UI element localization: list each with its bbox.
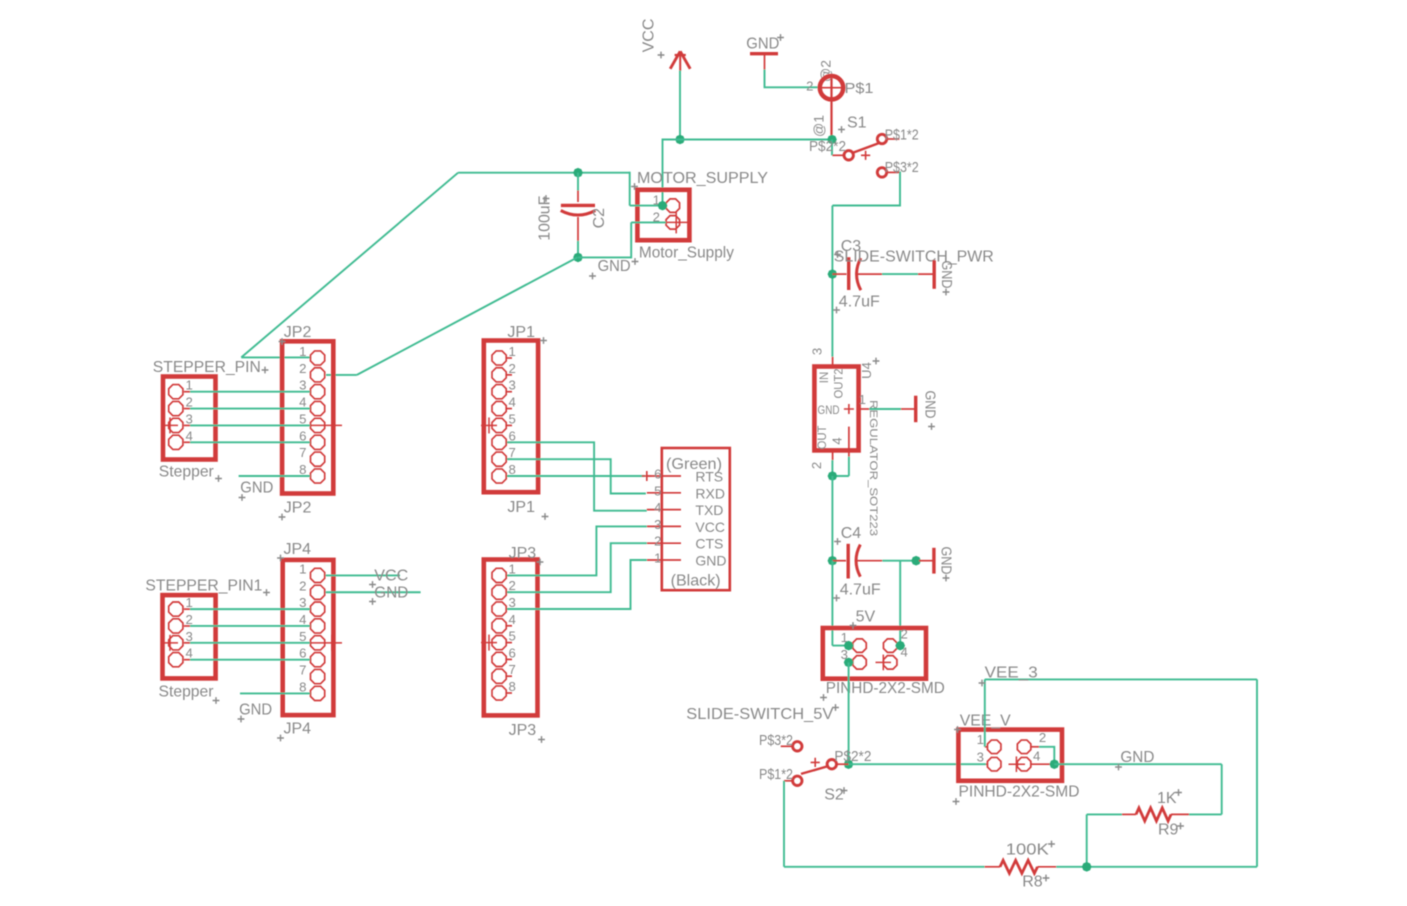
pad 3 (JP1) xyxy=(492,385,506,399)
pad 8 (JP4) xyxy=(310,686,324,700)
label PINHD-2X2-SMD origin xyxy=(820,694,827,701)
wire xyxy=(831,460,833,476)
junction xyxy=(844,759,854,769)
ground xyxy=(750,54,778,70)
svg-text:(Black): (Black) xyxy=(671,573,721,590)
junction xyxy=(828,556,838,566)
label 4.7uF origin xyxy=(833,307,840,314)
wire xyxy=(190,625,310,627)
wire xyxy=(241,173,458,358)
svg-text:2: 2 xyxy=(186,395,193,410)
svg-text:Stepper: Stepper xyxy=(159,464,215,481)
label PINHD-2X2-SMD origin xyxy=(953,798,960,805)
pad 2 (JP4) xyxy=(310,585,324,599)
svg-text:PINHD-2X2-SMD: PINHD-2X2-SMD xyxy=(826,680,945,697)
svg-text:4: 4 xyxy=(299,612,306,627)
svg-text:P$2*2: P$2*2 xyxy=(809,139,846,155)
connector STEPPER_PIN xyxy=(163,377,216,460)
junction xyxy=(658,201,668,211)
wire xyxy=(1189,813,1222,815)
pad 4 (JP4) xyxy=(310,619,324,633)
pad 5 (JP4) xyxy=(310,636,324,650)
svg-text:GND: GND xyxy=(1120,749,1154,766)
svg-text:1K: 1K xyxy=(1157,790,1177,807)
origin cross STEPPER_PIN xyxy=(161,417,178,433)
pad 4 (5V) xyxy=(876,655,897,671)
svg-text:6: 6 xyxy=(509,428,516,443)
svg-text:VCC: VCC xyxy=(695,519,725,535)
pad 3 (STEPPER_PIN1) xyxy=(169,636,183,650)
svg-text:2: 2 xyxy=(1039,730,1046,745)
wire xyxy=(832,645,850,647)
svg-text:4: 4 xyxy=(509,395,516,410)
wire xyxy=(848,457,850,476)
svg-text:S1: S1 xyxy=(847,115,867,132)
regulator U4 pin 2 xyxy=(832,450,834,460)
pin 6 (RTS) xyxy=(647,475,681,477)
svg-text:2: 2 xyxy=(809,462,824,469)
pad 4 (JP1) xyxy=(492,401,506,415)
label C4 origin xyxy=(834,538,841,545)
svg-text:VCC: VCC xyxy=(641,19,658,53)
label R8 origin xyxy=(1043,875,1050,882)
wire xyxy=(984,679,986,746)
svg-text:PINHD-2X2-SMD: PINHD-2X2-SMD xyxy=(959,784,1080,801)
label GND origin xyxy=(943,289,950,296)
pad 3 (JP3) xyxy=(492,602,506,616)
label GND origin xyxy=(369,598,376,605)
pad 7 (JP2) xyxy=(310,452,324,466)
connector JP3 xyxy=(484,560,538,716)
pad 3 (STEPPER_PIN) xyxy=(169,418,183,432)
label JP1 origin xyxy=(542,513,549,520)
svg-text:3: 3 xyxy=(977,749,984,764)
label U4 origin xyxy=(873,358,880,365)
pad 1 (JP4) xyxy=(310,568,324,582)
wire xyxy=(849,763,987,765)
wire xyxy=(577,241,579,258)
svg-text:8: 8 xyxy=(509,679,516,694)
junction xyxy=(675,135,685,145)
svg-text:TXD: TXD xyxy=(695,502,723,518)
junction xyxy=(828,269,838,279)
connector JP2 xyxy=(282,341,333,493)
junction xyxy=(844,641,854,651)
svg-text:3: 3 xyxy=(810,348,825,355)
pad 7 (JP3) xyxy=(492,669,506,683)
connector FTDI cable xyxy=(662,448,730,590)
pad 1 (STEPPER_PIN) xyxy=(169,385,183,399)
svg-text:R8: R8 xyxy=(1022,874,1043,891)
connector VEE_V header xyxy=(958,730,1062,781)
svg-text:1: 1 xyxy=(977,732,984,747)
label 5V origin xyxy=(850,622,857,629)
label Stepper origin xyxy=(215,475,222,482)
wire xyxy=(241,356,311,358)
wire xyxy=(882,273,918,275)
wire xyxy=(458,172,630,174)
wire xyxy=(869,408,901,410)
wire xyxy=(663,139,833,141)
svg-text:JP3: JP3 xyxy=(509,545,537,562)
label GND origin xyxy=(589,273,596,280)
label GND origin xyxy=(777,34,784,41)
svg-text:1: 1 xyxy=(299,344,306,359)
label Motor_Supply origin xyxy=(632,258,639,265)
svg-text:GND: GND xyxy=(922,391,938,419)
wire xyxy=(190,408,310,410)
label JP3 origin xyxy=(538,736,545,743)
wire xyxy=(831,274,833,357)
wire xyxy=(1256,679,1258,866)
wire xyxy=(507,475,645,477)
wire xyxy=(577,173,579,191)
wire xyxy=(985,678,1257,680)
svg-text:GND: GND xyxy=(598,258,631,275)
svg-text:5: 5 xyxy=(299,411,306,426)
wire xyxy=(190,642,310,644)
label VCC origin xyxy=(658,52,665,59)
label STEPPER_PIN1 origin xyxy=(263,589,270,596)
svg-text:5V: 5V xyxy=(856,609,876,626)
svg-text:7: 7 xyxy=(509,662,516,677)
regulator U4 pin 3 xyxy=(832,357,834,367)
junction xyxy=(1082,862,1092,872)
svg-text:3: 3 xyxy=(654,517,661,532)
label MOTOR_SUPPLY origin xyxy=(631,183,638,190)
pad 7 (JP1) xyxy=(492,452,506,466)
svg-text:2: 2 xyxy=(299,361,306,376)
wire xyxy=(507,526,647,575)
pad 3 (5V) xyxy=(853,656,866,669)
pad 2 (JP2) xyxy=(310,368,324,382)
wire xyxy=(190,391,310,393)
svg-text:VEE_3: VEE_3 xyxy=(985,665,1038,682)
label STEPPER_PIN origin xyxy=(262,367,269,374)
svg-text:OUT2: OUT2 xyxy=(834,369,846,399)
wire xyxy=(765,70,818,88)
label C3 origin xyxy=(834,251,841,258)
pad 2 (MOTOR_SUPPLY) xyxy=(665,211,688,233)
wire xyxy=(831,561,833,646)
pad 2 (VEE_V) xyxy=(1017,740,1030,753)
label JP4 origin xyxy=(277,735,284,742)
connector MOTOR_SUPPLY xyxy=(637,190,689,240)
svg-text:4: 4 xyxy=(186,646,193,661)
pad 1 (MOTOR_SUPPLY) xyxy=(666,199,679,212)
wire xyxy=(783,781,785,867)
origin cross U4 xyxy=(844,404,854,414)
junction xyxy=(895,641,905,651)
svg-text:6: 6 xyxy=(299,428,306,443)
svg-text:P$3*2: P$3*2 xyxy=(885,160,919,176)
svg-text:100K: 100K xyxy=(1006,842,1049,859)
svg-text:2: 2 xyxy=(654,534,661,549)
svg-text:7: 7 xyxy=(299,663,306,678)
pad 2 (STEPPER_PIN) xyxy=(169,401,183,415)
svg-text:GND: GND xyxy=(938,261,954,289)
pin 5 (RXD) xyxy=(647,492,681,494)
pad 5 (JP2) xyxy=(310,418,324,432)
svg-text:JP2: JP2 xyxy=(284,324,312,341)
wire xyxy=(507,459,646,493)
label GND origin xyxy=(943,575,950,582)
wire xyxy=(507,442,647,510)
svg-text:3: 3 xyxy=(509,595,516,610)
pad 1 (JP3) xyxy=(492,568,506,582)
svg-text:RXD: RXD xyxy=(695,485,725,501)
wire xyxy=(190,659,310,661)
svg-text:JP1: JP1 xyxy=(507,499,535,516)
label 100K origin xyxy=(1048,841,1055,848)
junction xyxy=(1050,759,1060,769)
wire xyxy=(899,561,901,646)
svg-text:P$3*2: P$3*2 xyxy=(759,733,793,749)
wire xyxy=(578,256,631,258)
svg-text:4: 4 xyxy=(186,428,193,443)
svg-text:IN: IN xyxy=(819,372,831,384)
wire xyxy=(1086,814,1088,866)
svg-text:7: 7 xyxy=(299,445,306,460)
junction xyxy=(844,658,854,668)
wire xyxy=(240,692,310,694)
svg-text:REGULATOR_SOT223: REGULATOR_SOT223 xyxy=(867,400,879,536)
regulator U4 pin 4 xyxy=(848,427,850,457)
pad 5 (JP3) xyxy=(492,635,506,649)
pin 4 (TXD) xyxy=(647,509,681,511)
svg-text:MOTOR_SUPPLY: MOTOR_SUPPLY xyxy=(637,170,768,187)
svg-text:5: 5 xyxy=(509,411,516,426)
wire xyxy=(832,172,900,205)
label S2 origin xyxy=(841,787,848,794)
resistor R8 xyxy=(985,860,1057,873)
svg-text:STEPPER_PIN: STEPPER_PIN xyxy=(153,359,261,376)
svg-text:JP1: JP1 xyxy=(507,324,535,341)
svg-text:P$1: P$1 xyxy=(845,80,874,97)
pad P$1 (S1) xyxy=(818,76,843,140)
svg-text:GND: GND xyxy=(240,480,273,497)
label JP4 origin xyxy=(277,555,284,562)
junction xyxy=(827,135,837,145)
svg-text:2: 2 xyxy=(186,612,193,627)
label 1K origin xyxy=(1175,789,1182,796)
pad 7 (JP4) xyxy=(310,669,324,683)
svg-text:2: 2 xyxy=(509,361,516,376)
wire xyxy=(1087,813,1122,815)
svg-text:2: 2 xyxy=(299,578,306,593)
pin 2 (CTS) xyxy=(647,542,681,544)
pad 8 (JP2) xyxy=(310,469,324,483)
label C2 origin xyxy=(543,195,550,202)
svg-text:1: 1 xyxy=(186,378,193,393)
svg-text:4: 4 xyxy=(830,437,845,444)
origin cross FTDI xyxy=(642,471,652,481)
pad 3 (VEE_V) xyxy=(987,757,1000,770)
capacitor C2 xyxy=(561,190,596,241)
svg-text:JP3: JP3 xyxy=(509,722,537,739)
svg-text:U4: U4 xyxy=(859,362,874,379)
svg-text:6: 6 xyxy=(509,645,516,660)
svg-text:JP2: JP2 xyxy=(284,500,312,517)
svg-text:GND: GND xyxy=(695,553,726,569)
pad 6 (JP3) xyxy=(492,652,506,666)
origin cross STEPPER_PIN1 xyxy=(161,635,178,651)
svg-text:JP4: JP4 xyxy=(284,721,312,738)
label S1 origin xyxy=(838,126,845,133)
ground xyxy=(919,548,934,574)
wire xyxy=(1039,747,1054,764)
label GND origin xyxy=(238,716,245,723)
wire xyxy=(848,662,850,764)
svg-text:C4: C4 xyxy=(841,525,862,542)
label Stepper origin xyxy=(213,697,220,704)
svg-text:CTS: CTS xyxy=(695,536,723,552)
pad 6 (JP1) xyxy=(492,435,506,449)
pad 3 (JP2) xyxy=(310,385,324,399)
svg-text:VCC: VCC xyxy=(374,568,408,585)
svg-text:GND: GND xyxy=(937,547,953,575)
pad 2 (STEPPER_PIN1) xyxy=(169,619,183,633)
svg-text:7: 7 xyxy=(509,445,516,460)
wire xyxy=(831,206,833,275)
svg-text:C2: C2 xyxy=(591,208,608,229)
svg-text:GND: GND xyxy=(818,405,840,417)
pad 1 (5V) xyxy=(853,639,866,652)
label JP2 origin xyxy=(279,338,286,345)
label R9 origin xyxy=(1177,823,1184,830)
wire xyxy=(1221,764,1223,814)
svg-text:4: 4 xyxy=(654,500,661,515)
switch S1 xyxy=(832,134,899,177)
svg-text:4.7uF: 4.7uF xyxy=(840,582,881,599)
power flag VCC xyxy=(670,51,690,71)
wire xyxy=(326,374,357,376)
connector JP1 xyxy=(484,341,538,493)
wire xyxy=(629,172,631,206)
regulator U4 xyxy=(814,367,858,451)
svg-text:5: 5 xyxy=(654,483,661,498)
svg-text:1: 1 xyxy=(859,392,866,407)
wire xyxy=(1054,763,1221,765)
junction xyxy=(573,253,583,263)
svg-text:100uF: 100uF xyxy=(537,195,554,240)
wire xyxy=(507,543,647,592)
svg-text:2: 2 xyxy=(806,79,813,94)
svg-text:Stepper: Stepper xyxy=(159,684,215,701)
svg-text:1: 1 xyxy=(509,561,516,576)
pad 4 (STEPPER_PIN1) xyxy=(169,653,183,667)
pad 8 (JP3) xyxy=(492,686,506,700)
label JP3 origin xyxy=(537,559,544,566)
label GND origin xyxy=(1115,764,1122,771)
svg-text:JP4: JP4 xyxy=(284,541,312,558)
svg-text:1: 1 xyxy=(186,595,193,610)
pad 4 (JP3) xyxy=(492,619,506,633)
svg-text:RTS: RTS xyxy=(695,469,723,485)
switch S2 xyxy=(781,742,849,786)
label 4.7uF origin xyxy=(833,595,840,602)
wire xyxy=(630,205,666,207)
wire xyxy=(832,475,849,477)
regulator U4 pin 1 xyxy=(859,408,870,410)
pad 2 (JP1) xyxy=(492,368,506,382)
wire xyxy=(507,560,647,609)
pad 4 (JP2) xyxy=(310,401,324,415)
wire xyxy=(1056,866,1257,868)
pad 1 (JP1) xyxy=(492,351,506,365)
svg-text:1: 1 xyxy=(509,344,516,359)
svg-text:Motor_Supply: Motor_Supply xyxy=(639,245,734,262)
svg-text:1: 1 xyxy=(654,551,661,566)
junction xyxy=(828,471,838,481)
svg-text:S2: S2 xyxy=(824,787,844,804)
svg-text:2: 2 xyxy=(509,578,516,593)
svg-text:@1: @1 xyxy=(811,115,827,137)
pin 1 (GND) xyxy=(647,559,681,561)
svg-text:4: 4 xyxy=(509,612,516,627)
svg-text:3: 3 xyxy=(186,629,193,644)
label VEE_3 origin xyxy=(979,680,986,687)
svg-text:3: 3 xyxy=(509,378,516,393)
svg-text:R9: R9 xyxy=(1158,822,1179,839)
svg-text:2: 2 xyxy=(901,627,908,642)
wire xyxy=(326,574,400,576)
svg-text:5: 5 xyxy=(299,629,306,644)
wire xyxy=(662,139,664,206)
label VEE_V origin xyxy=(954,726,961,733)
pad 6 (JP4) xyxy=(310,653,324,667)
pad 1 (STEPPER_PIN1) xyxy=(169,602,183,616)
svg-text:6: 6 xyxy=(299,646,306,661)
wire xyxy=(357,257,578,375)
pin 3 (VCC) xyxy=(647,525,681,527)
connector JP4 xyxy=(283,560,334,715)
wire xyxy=(190,424,310,426)
svg-text:8: 8 xyxy=(299,462,306,477)
connector 5V header xyxy=(823,628,926,679)
svg-text:8: 8 xyxy=(509,462,516,477)
wire xyxy=(631,221,666,223)
wire xyxy=(831,140,833,156)
origin cross JP2 xyxy=(310,417,342,433)
junction xyxy=(911,556,921,566)
pad 3 (JP4) xyxy=(310,602,324,616)
capacitor C3 xyxy=(832,257,882,290)
svg-text:1: 1 xyxy=(299,561,306,576)
wire xyxy=(190,441,310,443)
wire xyxy=(784,866,985,868)
label SLIDE-SWITCH_5V origin xyxy=(832,704,839,711)
svg-text:GND: GND xyxy=(239,702,272,719)
pad 2 (JP3) xyxy=(492,585,506,599)
label JP2 origin xyxy=(279,514,286,521)
svg-text:P$1*2: P$1*2 xyxy=(759,767,793,783)
svg-text:4.7uF: 4.7uF xyxy=(839,294,880,311)
pad 6 (JP2) xyxy=(310,435,324,449)
wire xyxy=(679,71,681,140)
svg-text:GND: GND xyxy=(746,36,779,53)
svg-text:4: 4 xyxy=(1033,749,1040,764)
connector STEPPER_PIN1 xyxy=(163,595,216,678)
wire xyxy=(831,476,833,561)
svg-text:3: 3 xyxy=(299,595,306,610)
svg-text:3: 3 xyxy=(186,411,193,426)
pad 1 (VEE_V) xyxy=(987,740,1000,753)
wire xyxy=(630,222,632,258)
wire xyxy=(326,591,421,593)
svg-text:SLIDE-SWITCH_PWR: SLIDE-SWITCH_PWR xyxy=(834,249,994,266)
pad 4 (STEPPER_PIN) xyxy=(169,435,183,449)
